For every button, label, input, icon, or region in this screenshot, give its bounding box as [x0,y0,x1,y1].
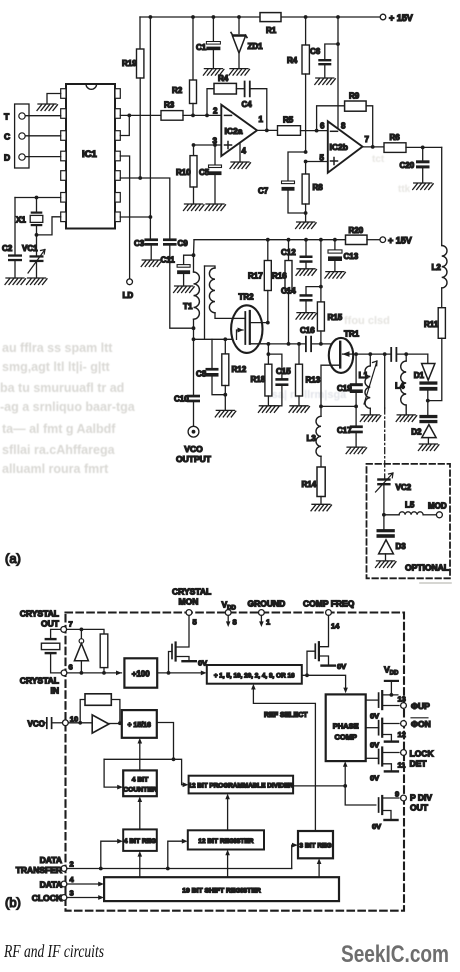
wire shiftreg to 4bitreg [139,854,141,877]
resistor R4 (feedback) [214,83,236,94]
svg-text:0V: 0V [372,822,381,831]
wire shiftreg to 3bitreg [318,861,320,877]
varicap VC2 [377,478,390,480]
capacitor C3 [144,238,158,241]
capacitor C10 [193,339,195,394]
transistor FET11 lock det [366,757,379,759]
svg-text:1: 1 [259,115,264,124]
wire TR1 source bottom line [321,405,356,407]
block 3 BIT REG [298,831,333,858]
wire rail to R4 vertical [305,17,307,45]
capacitor C2 [14,198,16,255]
svg-text:P DIV: P DIV [410,793,432,803]
svg-text:(a): (a) [5,551,21,566]
svg-text:L3: L3 [307,434,317,443]
node junction rail R2 [191,15,195,19]
svg-text:+ 15V: + 15V [388,236,412,246]
resistor R11 [438,308,445,339]
svg-text:C16: C16 [300,326,315,335]
svg-text:TR2: TR2 [239,293,255,302]
resistor R10 [193,145,195,156]
resistor amp feedback [80,700,85,723]
node pin8 junction [149,215,153,219]
block 12 BIT REGISTER [188,830,264,849]
node pin5 junction [304,160,308,164]
varactor D3 [383,515,385,529]
node rail-R19 corner [139,17,141,49]
svg-text:au fflra ss spam ltt: au fflra ss spam ltt [2,341,113,355]
wire T1 secondary top leg [204,266,206,339]
svg-text:R3: R3 [164,101,175,110]
ground under R12 [215,410,236,417]
wire to FET9 gate [345,786,376,805]
svg-text:R12: R12 [232,365,247,374]
pin 14 COMP FREQ [326,610,332,616]
wire R2 to pin2 line [192,104,194,116]
svg-text:-ag a srnliquo baar-tga: -ag a srnliquo baar-tga [0,400,136,414]
svg-text:ZD1: ZD1 [248,42,264,51]
pin 7 CRYSTAL OUT [61,627,67,633]
svg-text:D2: D2 [411,428,422,437]
svg-text:DATA: DATA [40,855,62,865]
transformer T1 secondary [205,266,216,268]
svg-text:C6: C6 [310,47,321,56]
wire 12bitreg to divider [227,797,229,831]
wire TR1 to L1 and C18 [356,353,391,355]
svg-text:0V: 0V [370,741,379,750]
node R19 joins pin10 line [138,176,142,180]
wire IC1 pin10 line to C9 riser [120,178,170,238]
node IC2a output junction [265,129,269,133]
resistor R9 [345,101,367,111]
svg-text:MOD: MOD [428,502,447,511]
wire div100 output [157,672,203,674]
ground under C12 [296,269,317,276]
node C17 top [354,405,358,409]
ground at IC1 pin1 [37,104,58,111]
node rail C12 [304,238,308,242]
svg-text:3 BIT REG: 3 BIT REG [299,842,331,849]
ground under C1 [203,69,224,76]
svg-text:tct: tct [372,154,385,165]
ground under C2 [5,278,26,285]
svg-text:CRYSTAL: CRYSTAL [20,676,59,686]
svg-text:3: 3 [70,889,74,898]
svg-text:ttk: ttk [398,184,411,195]
ground under L4 [396,415,417,422]
wire R6 to C20 node [406,146,442,148]
resistor R12 [224,339,226,354]
svg-text:÷ 1, 5, 10, 20, 2, 4, 8, OR 16: ÷ 1, 5, 10, 20, 2, 4, 8, OR 16 [214,672,295,679]
node IC2b output junction [371,145,375,149]
wire div1516 out [157,723,174,760]
wire rail corner down to T1 [193,240,196,272]
terminal VCO OUTPUT [188,426,199,437]
crystal X2 external [51,629,61,638]
svg-text:C15: C15 [276,367,291,376]
resistor feedback bias [100,634,108,668]
op-amp IC2b [328,121,363,172]
svg-text:R17: R17 [248,272,263,281]
wire R4 to C4 [236,88,244,90]
svg-text:COMP FREQ: COMP FREQ [303,599,355,609]
capacitor C20 [422,147,424,160]
svg-text:VC1: VC1 [22,244,38,253]
svg-text:TRANSFER: TRANSFER [16,865,62,875]
svg-text:(b): (b) [5,895,21,910]
node divider out [343,784,347,788]
svg-text:D1: D1 [414,371,425,380]
node VDD FET13 [390,693,394,697]
wire C to IC1 pin3 [25,135,61,137]
wire X1 bottom to IC1 pin7 [37,217,61,235]
capacitor C5 [214,145,216,165]
svg-text:4 BIT REG: 4 BIT REG [124,838,156,845]
node R2/R3 junction [191,114,195,118]
node R12 top [223,337,227,341]
svg-text:R19: R19 [122,59,137,68]
svg-text:R4: R4 [218,74,229,83]
wire up to phase comp [344,764,346,786]
ground under L1 [360,415,381,422]
wire long drop to L2 [441,147,443,245]
transistor FET12 phi-dn [366,727,379,729]
svg-text:COUNTER: COUNTER [123,787,157,794]
zener diode ZD1 [238,17,240,34]
node rail R17 [266,238,270,242]
dashed IC boundary box [66,613,405,911]
ground under C17 [346,447,367,454]
svg-text:alluaml roura fmrt: alluaml roura fmrt [2,462,109,476]
resistor R4 (vertical) [302,45,309,74]
block 4 BIT REG [123,829,157,851]
svg-text:L5: L5 [405,501,415,510]
node amp input [78,721,82,725]
capacitor C16 [306,337,311,352]
wire C9 down to T1 bottom [170,246,194,329]
svg-text:OUTPUT: OUTPUT [176,454,212,464]
ground under D3 [376,561,397,568]
svg-text:MON: MON [179,597,199,607]
ground under R8 [296,222,317,229]
svg-text:10: 10 [70,714,78,723]
node L4 top [404,352,408,356]
amp buffer [92,715,109,733]
wire IC2a pin4 to ground [239,143,241,162]
svg-text:1: 1 [266,618,270,627]
resistor R15 [317,302,324,331]
transistor TR1 [329,338,353,373]
crystal X1 [36,198,38,212]
svg-text:CRYSTAL: CRYSTAL [172,587,211,597]
node C5 top [213,143,217,147]
terminal +15V lower [380,237,386,243]
node R15 bottom TR1 [319,342,323,346]
inductor L5 [384,514,399,516]
wire T1 bottom to source line [193,328,195,339]
wire +15V top rail [140,16,380,18]
svg-text:C2: C2 [2,244,13,253]
svg-text:VCO: VCO [184,444,203,454]
svg-text:C9: C9 [178,239,189,248]
wire T to IC1 pin2 [25,115,61,117]
varicap VC1 [36,235,38,255]
IC IC1 [66,84,115,229]
connector T C D [15,104,29,168]
ground under ZD1 [229,69,250,76]
svg-text:ta— al fmt g Aalbdf: ta— al fmt g Aalbdf [2,422,116,436]
svg-text:D: D [4,153,10,163]
wire feedback up from pin2 [207,89,214,116]
svg-text:T1: T1 [183,302,193,311]
transistor comp freq FET [307,651,315,675]
ground under C20 [413,183,434,190]
svg-text:VCO: VCO [28,719,45,728]
transistor monitor FET [169,652,173,673]
dashed box OPTIONAL [367,464,451,578]
wire R5 to IC2b pin6 [301,130,328,132]
resistor R1 [260,13,281,22]
svg-text:ΦUP: ΦUP [411,701,430,711]
capacitor C18 series [391,348,396,361]
svg-text:DATA: DATA [40,880,62,890]
node feedback tap [205,114,209,118]
node junction rail C1 [212,15,216,19]
svg-text:sfllai ra.cAhffarega: sfllai ra.cAhffarega [2,443,116,457]
svg-text:C3: C3 [134,239,145,248]
svg-text:R2: R2 [172,86,183,95]
svg-text:2: 2 [213,107,218,116]
svg-text:X1: X1 [16,216,26,225]
svg-text:C1: C1 [196,43,207,52]
terminal MOD [436,512,442,518]
svg-text:REF SELECT: REF SELECT [264,712,308,719]
node corner junction [172,757,176,761]
svg-text:11: 11 [398,761,406,770]
block divide by 100 [124,658,157,687]
svg-text:ΦON: ΦON [411,719,431,729]
node source line left [192,337,196,341]
transistor FET9 p div out [379,796,383,814]
node T1 bottom [192,326,196,330]
node junction rail x150 [149,15,153,19]
inductor L2 [442,246,447,288]
svg-text:IN: IN [51,686,60,696]
wire counter to div1516 [139,741,141,770]
pin 11 LOCK DET [401,750,407,756]
svg-text:IC2a: IC2a [225,126,243,136]
wire feedback R9 loop [317,106,345,131]
svg-text:12: 12 [398,730,406,739]
capacitor C15 [268,354,282,378]
capacitor C19 [355,354,357,383]
pin 3 CLOCK [61,895,67,901]
svg-text:R14: R14 [302,480,317,489]
inductor L3 [320,406,322,416]
svg-text:0V: 0V [337,662,346,671]
resistor R20 [346,235,368,244]
resistor R6 [384,143,406,153]
svg-text:C12: C12 [281,248,296,257]
varactor D1 [427,354,429,363]
node L3 top [319,405,323,409]
node R8 bottom C7 join [304,211,308,215]
node junction C6 tap [336,42,340,46]
resistor R19 [137,49,144,78]
wire IC1 pin8 to rail vertical [120,216,150,218]
IC1 pins left [61,89,66,222]
capacitor C12 [305,240,307,256]
node FET14 gate tap [305,673,309,677]
svg-text:C8: C8 [196,370,207,379]
svg-text:SeekIC.com: SeekIC.com [341,941,449,968]
varactor D2 [427,401,429,415]
capacitor C9 [163,238,177,241]
wire data transfer line [67,868,292,870]
transistor TR2 [231,305,262,353]
inverter osc [80,629,82,638]
svg-text:tsa| ra-llrm|sga: tsa| ra-llrm|sga [268,389,347,401]
svg-text:R4: R4 [287,56,298,65]
svg-text:R18: R18 [251,375,266,384]
svg-text:C5: C5 [199,168,210,177]
svg-text:D3: D3 [396,542,407,551]
wire divider output [293,785,345,787]
svg-text:R1: R1 [266,26,277,35]
pin 13 [401,703,407,709]
node TR2 drain R17 [266,321,270,325]
svg-text:+ 15V: + 15V [389,13,413,23]
svg-text:R16: R16 [272,272,287,281]
node bias to C7 branch [304,150,308,154]
capacitor C7 [282,181,295,184]
wire source line [194,338,237,340]
block PHASE COMP [326,694,366,761]
resistor R8 [305,162,307,175]
node X1 bottom [35,233,39,237]
svg-text:8: 8 [341,122,346,131]
ground under R13 [289,406,310,413]
svg-text:C11: C11 [161,256,176,265]
pin 9 P DIV OUT [401,795,407,801]
node R12 bottom [223,393,227,397]
svg-text:7: 7 [365,135,370,144]
capacitor C4 [245,82,250,97]
block divide 15/16 [122,710,157,738]
svg-text:÷ 15/16: ÷ 15/16 [128,722,151,729]
ground under D2 [418,444,439,451]
wire IC2a pin3 line [194,144,222,146]
node X1 top [35,196,39,200]
node D1 D2 R11 [426,399,430,403]
svg-text:R5: R5 [283,116,294,125]
block 19 BIT SHIFT REGISTER [104,877,339,901]
wire long vertical from rail to C3 [149,17,151,238]
svg-text:12 BIT PROGRAMMABLE DIVIDER: 12 BIT PROGRAMMABLE DIVIDER [188,783,293,790]
svg-text:VDD: VDD [384,664,399,676]
svg-text:R6: R6 [390,133,401,142]
svg-text:R15: R15 [328,313,343,322]
svg-text:2: 2 [70,860,74,869]
capacitor C14 [306,287,321,295]
wire IC2a output [257,129,278,131]
node junction rail R4vert [304,15,308,19]
node R10 top [192,143,196,147]
scan artifact line [420,582,451,584]
transformer T1 primary [194,272,200,319]
wire IC1 pin13 line to R3 [120,114,161,116]
svg-text:4: 4 [242,147,247,156]
ground under C11 [174,286,195,293]
svg-text:LD: LD [123,291,134,300]
capacitor C17 [355,406,357,425]
svg-text:PHASE: PHASE [333,721,359,730]
wire tie pin13-pin12 [120,115,129,135]
wire C6 branch down to IC2b pin 8 [337,17,339,129]
svg-text:OPTIONAL: OPTIONAL [405,563,449,573]
svg-text:6: 6 [320,122,325,131]
svg-text:L2: L2 [432,263,442,272]
node C20 top [421,146,425,150]
block 12 BIT PROGRAMMABLE DIVIDER [189,776,294,794]
wire R19 bottom to IC1 pin10 line [139,78,141,178]
svg-text:6: 6 [69,663,73,672]
svg-text:COMP: COMP [334,732,357,741]
ground under VC1 [27,278,48,285]
ground under R18 [258,406,279,413]
ground under C13 [325,272,346,279]
wire shiftreg to 12bitreg [227,853,229,878]
node inverter bottom [80,671,84,675]
node VC2 L5 D3 [382,513,386,517]
wire gang line solid [384,354,386,408]
resistor R16 [288,240,290,261]
resistor R17 [267,240,269,261]
capacitor C6 [325,44,338,59]
wire C11 branch [184,255,194,264]
node C14 branch [319,285,323,289]
node T1 top C11 [192,253,196,257]
wire R9 right to output [366,106,373,147]
svg-text:19 BIT SHIFT REGISTER: 19 BIT SHIFT REGISTER [182,887,261,894]
transistor FET13 phi-up [366,699,379,701]
svg-text:CRYSTAL: CRYSTAL [20,609,59,619]
wire T1 secondary to TR2 gate [215,313,234,319]
wire D to IC1 pin4 [25,156,61,158]
svg-text:IC1: IC1 [82,149,98,160]
svg-text:LOCK: LOCK [410,749,435,759]
svg-text:7: 7 [69,620,73,629]
node rail R16 [287,238,291,242]
inductor L1 (variable) [369,354,371,366]
block reference divider [207,665,302,684]
node resistor bottom [102,671,106,675]
svg-text:OUT: OUT [41,619,60,629]
svg-text:R11: R11 [424,320,439,329]
pin 8 VDD [225,610,231,616]
wire R15 riser [320,240,322,302]
node amp output [118,721,122,725]
svg-text:12 BIT REGISTER: 12 BIT REGISTER [198,838,254,845]
svg-text:RF and IF circuits: RF and IF circuits [3,941,104,961]
node C15 tap [267,352,271,356]
IC1 pins right [115,89,120,222]
wire R20 to terminal [367,239,380,241]
node jog 4bitreg [99,867,103,871]
svg-text:ba tu smuruuafl tr ad: ba tu smuruuafl tr ad [0,381,124,395]
wire to 4bit counter [104,759,120,787]
svg-text:5: 5 [193,618,197,627]
